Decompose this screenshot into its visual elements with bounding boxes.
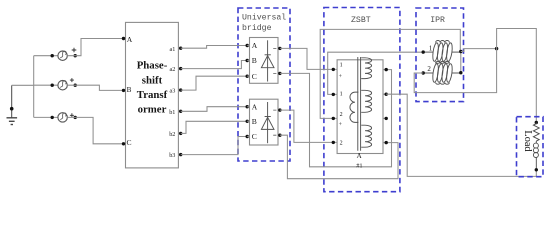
- load bottom node: [535, 168, 538, 171]
- ZSBT right winding coil 1: [361, 58, 371, 79]
- wire b2 to bridge2 B: [181, 121, 248, 133]
- wire source neutral bus: [33, 56, 35, 118]
- IPR dashed group box: [416, 8, 464, 102]
- svg-text:B: B: [252, 56, 257, 65]
- load resistor: [533, 123, 539, 142]
- IPR inductor coil 2: [423, 61, 461, 84]
- svg-text:B: B: [252, 117, 257, 126]
- transformer core: [358, 57, 361, 151]
- svg-text:a2: a2: [170, 66, 176, 73]
- svg-text:C: C: [252, 132, 257, 141]
- svg-text:C: C: [252, 72, 257, 81]
- IPR output bus: [460, 52, 462, 73]
- IPR coil1 input dot: [422, 50, 425, 53]
- svg-text:shift: shift: [142, 74, 163, 86]
- diode symbol bridge 2: [261, 102, 274, 143]
- wire junction over the top to load plus: [497, 29, 537, 123]
- svg-text:Universal: Universal: [242, 13, 286, 23]
- universal bridge rectifier 2: [250, 99, 279, 145]
- universal bridge dashed group box: [238, 8, 290, 161]
- svg-text:C: C: [127, 138, 132, 147]
- plus minus labels bridge1: [273, 48, 276, 73]
- terminal C: [124, 143, 126, 145]
- bridge1 port dots: [246, 44, 249, 47]
- ZSBT right port stubs and dots: [383, 70, 386, 143]
- wire source Vb to terminal B: [67, 85, 123, 90]
- wire ZSBT R2 to load minus return: [386, 94, 536, 176]
- node dots source Vc: [51, 116, 54, 119]
- svg-text:b3: b3: [169, 152, 175, 159]
- svg-text:A: A: [127, 35, 133, 44]
- node dots source Va: [51, 54, 54, 57]
- svg-text:A: A: [252, 41, 258, 50]
- terminal b1: [178, 110, 180, 112]
- AC source Vc: [58, 113, 67, 122]
- AC source Vb: [58, 81, 67, 90]
- plus label source Vb: [70, 78, 74, 82]
- svg-text:1: 1: [340, 63, 343, 69]
- svg-text:#1: #1: [356, 162, 362, 169]
- wire b1 to bridge2 A: [181, 107, 248, 112]
- terminal b3: [178, 154, 180, 156]
- plus minus labels bridge2: [273, 110, 276, 135]
- wire b3 to bridge2 C: [181, 137, 248, 155]
- svg-text:Phase-: Phase-: [137, 59, 168, 71]
- svg-text:b1: b1: [169, 109, 175, 116]
- load inductor: [533, 141, 538, 170]
- bridge2 port dots: [246, 105, 249, 108]
- svg-text:ormer: ormer: [138, 103, 167, 115]
- wire junction down to IPR coil2 input: [414, 49, 496, 93]
- terminal B: [124, 89, 126, 91]
- wire bridge2 minus to ZSBT right terminal R4: [280, 135, 398, 179]
- wire bridge2 plus to ZSBT winding2 dot end: [280, 110, 333, 142]
- wire bus to source Va: [34, 55, 58, 57]
- IPR inductor coil 1: [423, 40, 461, 63]
- diode symbol bridge 1: [261, 40, 274, 81]
- IPR coil2 input dot: [422, 71, 425, 74]
- wire bridge1 plus to ZSBT winding1 dot end: [280, 48, 333, 69]
- ZSBT dashed group box: [324, 8, 400, 192]
- svg-text:a3: a3: [170, 88, 176, 95]
- terminal a1: [178, 47, 180, 49]
- svg-text:1: 1: [429, 45, 433, 53]
- load top node: [535, 121, 538, 124]
- junction node: [495, 47, 498, 50]
- wire a3 to bridge1 C: [181, 76, 248, 90]
- ZSBT right winding coil 3: [361, 125, 371, 147]
- ZSBT right winding coil 2: [361, 90, 371, 112]
- wire bridge1 minus to ZSBT right terminal R1: [280, 70, 392, 167]
- wire a2 to bridge1 B: [181, 61, 248, 69]
- wire source Vc to terminal C: [67, 117, 123, 143]
- svg-text:Load: Load: [522, 130, 533, 152]
- svg-text:bridge: bridge: [242, 23, 272, 33]
- ZSBT left port stubs and dots: [333, 69, 337, 142]
- AC source Va: [58, 51, 67, 60]
- node dots source Vb: [51, 84, 54, 87]
- wire source Va to terminal A: [67, 39, 123, 56]
- ZSBT multi-winding transformer block: [337, 60, 383, 154]
- svg-text:2: 2: [340, 112, 343, 118]
- svg-text:b2: b2: [169, 131, 175, 138]
- wire bus to source Vb: [34, 84, 58, 86]
- svg-text:1: 1: [340, 92, 343, 98]
- plus label source Va: [72, 48, 77, 53]
- svg-text:A: A: [357, 152, 362, 160]
- ground: [7, 85, 18, 124]
- wire ZSBT winding1 out to IPR coil1: [328, 52, 424, 94]
- svg-text:Transf: Transf: [137, 89, 168, 101]
- phase-shift transformer block: [126, 22, 179, 168]
- plus label source Vc: [70, 113, 74, 117]
- svg-text:ZSBT: ZSBT: [351, 16, 371, 25]
- svg-text:2: 2: [427, 65, 431, 73]
- wire bus to source Vc: [34, 116, 58, 118]
- ground node dot: [10, 107, 14, 111]
- wire ZSBT winding2 terminal to IPR junction over the top: [320, 29, 460, 118]
- wire a1 to bridge1 A: [181, 46, 248, 49]
- svg-text:B: B: [127, 86, 132, 94]
- terminal a3: [178, 89, 180, 91]
- terminal A: [124, 38, 126, 40]
- terminal b2: [178, 132, 180, 134]
- ZSBT left winding coil: [350, 92, 358, 122]
- universal bridge rectifier 1: [250, 38, 279, 84]
- svg-text:2: 2: [340, 140, 343, 146]
- svg-text:IPR: IPR: [430, 16, 445, 25]
- terminal a2: [178, 68, 180, 70]
- load dashed group box: [517, 117, 544, 177]
- wire IPR output to load junction: [461, 49, 497, 52]
- svg-text:A: A: [252, 102, 258, 111]
- wire ground to source bus: [12, 84, 34, 86]
- svg-text:a1: a1: [170, 46, 176, 53]
